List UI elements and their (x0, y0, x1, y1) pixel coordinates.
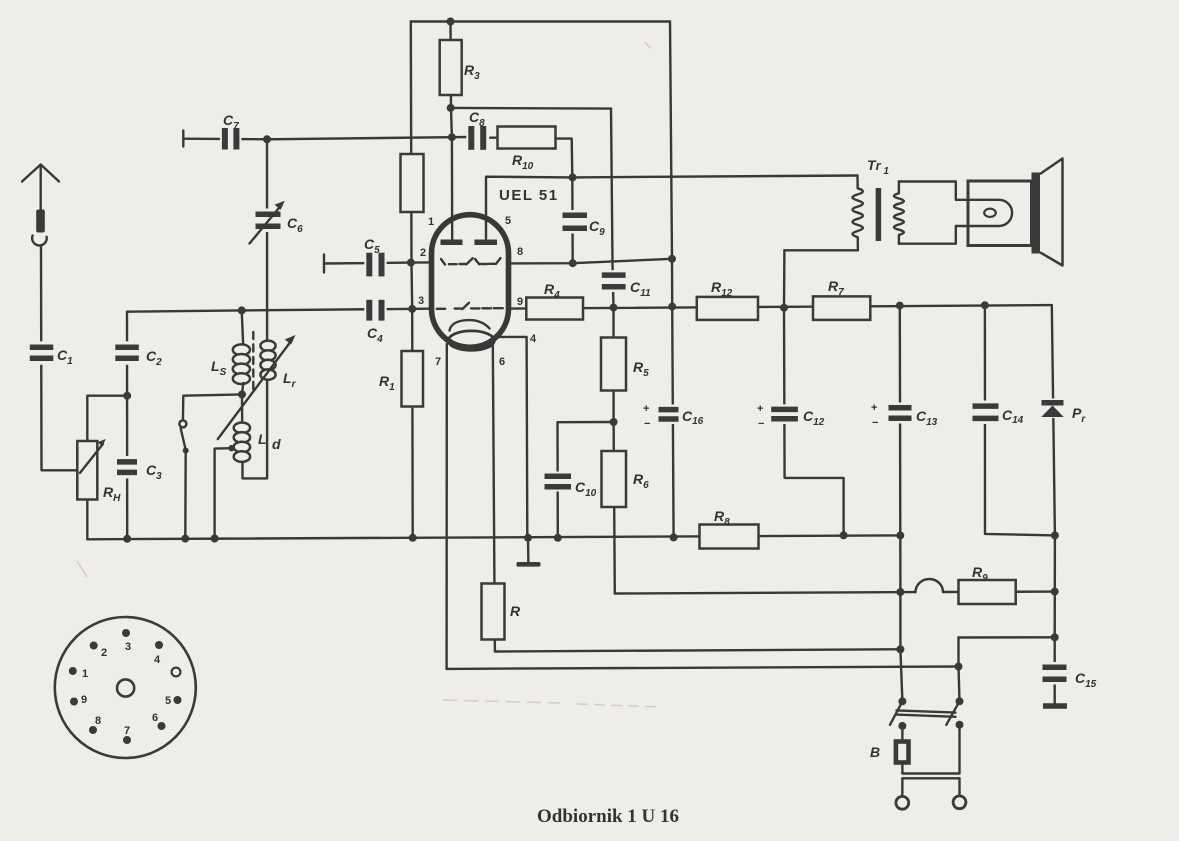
node pin8 rail / right column junction (668, 255, 676, 263)
node filament line 2 / switch column junction (955, 663, 963, 671)
node grid rail / R1 junction (408, 305, 416, 313)
battery B (870, 742, 909, 763)
resistor R1 (379, 351, 423, 407)
node bottom rail / C16 junction (670, 533, 678, 541)
node bottom rail / C10 junction (554, 534, 562, 542)
node R5 / R6 / C10 junction (610, 418, 618, 426)
transformer Tr1 core (876, 188, 882, 241)
wire R5 R6 column (614, 308, 615, 594)
capacitor C8 (466, 109, 489, 152)
capacitor C15 (1041, 662, 1097, 690)
node bottom rail / C13 column junction (896, 531, 904, 539)
node anode rail / C13 junction (896, 302, 904, 310)
capacitor C9 (561, 210, 606, 238)
wire ground stub (527, 538, 530, 563)
svg-text:5: 5 (165, 695, 171, 707)
wire switch to bottom rail (184, 451, 187, 539)
diode Pr rectifier (1040, 399, 1087, 426)
inductor Ls (211, 344, 250, 384)
capacitor C1 (28, 341, 73, 367)
svg-text:8: 8 (517, 246, 523, 258)
node bottom rail / Ld tap junction (211, 535, 219, 543)
wire C16 column (672, 259, 674, 538)
svg-text:7: 7 (435, 356, 441, 368)
wire x958 column (959, 638, 960, 702)
inductor Ld (234, 423, 281, 462)
node R9 line / C13 column junction (896, 588, 904, 596)
wire RH bottom lead (86, 500, 88, 540)
wire C2 column (126, 312, 129, 539)
capacitor C4 (364, 298, 386, 345)
switch S1 band (179, 420, 188, 453)
inductor Lr (260, 341, 296, 390)
svg-text:−: − (644, 418, 650, 430)
svg-text:−: − (758, 418, 764, 430)
tube filament arc (450, 320, 490, 330)
speaker cone (1040, 159, 1063, 266)
op-amp U1 tube UEL51 envelope (432, 215, 509, 348)
resistor R3 (440, 40, 480, 95)
wire C10 branch (558, 422, 614, 538)
wire antenna to C1 to RH wiper (41, 247, 80, 471)
wire antenna lead (40, 166, 42, 211)
node screen line / R10 junction (569, 173, 577, 181)
antenna (22, 165, 59, 246)
ground (517, 562, 541, 567)
svg-text:C2: C2 (146, 348, 162, 368)
node C7 left terminus (182, 131, 184, 147)
svg-text:1: 1 (82, 668, 88, 680)
speaker magnet housing (968, 181, 1032, 246)
svg-text:d: d (272, 436, 281, 452)
tube pin number labels (418, 215, 537, 368)
svg-text:+: + (643, 403, 649, 415)
svg-text:3: 3 (125, 641, 131, 653)
svg-text:9: 9 (517, 296, 523, 308)
node top rail / R3 junction (447, 18, 455, 26)
svg-text:R: R (510, 603, 521, 619)
node bottom rail / pin4 ground junction (524, 534, 532, 542)
svg-text:C6: C6 (287, 215, 303, 235)
svg-text:C15: C15 (1075, 670, 1097, 690)
wire R9 line right (943, 590, 1055, 593)
node pin2 rail / left column junction (407, 259, 415, 267)
wire R3 bottom to C11 column link (451, 107, 612, 110)
node C5 left terminus (323, 255, 325, 273)
svg-text:C11: C11 (630, 279, 651, 299)
wire C13 column (900, 306, 903, 702)
capacitor C3 (115, 456, 162, 482)
capacitor C11 (600, 270, 651, 299)
wire Ld top lead (241, 394, 244, 423)
wire C12 column (784, 250, 844, 535)
node R3 / C7 rail junction (448, 133, 456, 141)
capacitor C16 electrolytic (643, 403, 704, 430)
wire R9 line left (615, 592, 916, 593)
node anode rail / R5-C11 junction (610, 304, 618, 312)
node C2 column / RH junction (123, 392, 131, 400)
svg-text:LS: LS (211, 358, 227, 378)
wire top rail (411, 20, 670, 22)
svg-text:+: + (757, 403, 763, 415)
node filament line 1 / switch column junction (896, 645, 904, 653)
speaker gap bar (1032, 173, 1041, 254)
svg-text:2: 2 (420, 247, 426, 259)
wire plug leads (901, 778, 904, 796)
node C15 end bar (1043, 703, 1067, 709)
resistor R2 unlabeled (401, 154, 424, 212)
svg-text:R3: R3 (464, 62, 480, 82)
speaker voice coil (968, 200, 1012, 226)
node bottom rail / R1 junction (409, 534, 417, 542)
tube grid dashed pin2-pin8 (441, 258, 501, 265)
capacitor C14 (971, 401, 1024, 427)
wire C8 to R10 (486, 136, 497, 138)
wire C6 column (266, 139, 269, 341)
wire pin6 lead through R (493, 343, 495, 652)
resistor R6 (602, 451, 650, 507)
svg-text:C9: C9 (589, 218, 605, 238)
svg-text:C12: C12 (803, 408, 825, 428)
transformer Tr1 primary (852, 157, 889, 250)
wire ferrite core dashed (252, 332, 254, 391)
wire y637 link (959, 636, 1055, 639)
resistor R9 (959, 564, 1016, 604)
node bottom rail / band switch junction (181, 535, 189, 543)
svg-text:R10: R10 (512, 152, 534, 172)
svg-text:+: + (871, 402, 877, 414)
resistor R10 (498, 127, 556, 173)
svg-text:4: 4 (154, 654, 161, 666)
resistor R8 (700, 508, 759, 549)
potentiometer RH (77, 439, 121, 504)
wire C11 column (611, 109, 614, 308)
svg-text:RH: RH (103, 484, 121, 504)
wire secondary top to speaker (899, 182, 968, 200)
svg-text:Lr: Lr (283, 370, 297, 390)
svg-text:2: 2 (101, 647, 107, 659)
capacitor C12 electrolytic (757, 403, 825, 430)
svg-text:B: B (870, 744, 880, 760)
resistor R4 (526, 281, 583, 320)
svg-text:4: 4 (530, 333, 537, 345)
capacitor C5 (364, 236, 387, 278)
wire pin4 lead (495, 337, 528, 538)
svg-text:R1: R1 (379, 373, 395, 393)
wire bottom rail (87, 535, 900, 539)
svg-text:5: 5 (505, 215, 511, 227)
wire plug lead right (958, 778, 960, 796)
resistor R power (482, 584, 522, 640)
svg-text:1: 1 (428, 216, 434, 228)
svg-text:C1: C1 (57, 347, 73, 367)
svg-text:C16: C16 (682, 408, 704, 427)
svg-text:C14: C14 (1002, 407, 1024, 426)
wire battery to cord (901, 763, 903, 774)
wire switch left to battery (901, 726, 903, 742)
resistor R5 (601, 338, 649, 391)
svg-text:L: L (258, 431, 267, 447)
svg-text:8: 8 (95, 715, 101, 727)
wire Ls bottom lead (242, 383, 243, 394)
node pin8 rail / C9 junction (569, 259, 577, 267)
node junction C7-C6 (263, 135, 271, 143)
svg-text:UEL 51: UEL 51 (499, 187, 559, 204)
node Ls / Ld / switch junction (238, 390, 246, 398)
svg-text:Odbiornik 1 U 16: Odbiornik 1 U 16 (537, 806, 679, 827)
svg-text:6: 6 (499, 356, 505, 368)
wire C14 column (985, 305, 1055, 535)
node anode rail / C12 junction (780, 304, 788, 312)
tube anode pin5 electrode (474, 240, 497, 246)
wire Lr tuning arrow (218, 335, 296, 439)
wire C7 rail (183, 137, 468, 139)
capacitor C13 electrolytic (871, 402, 938, 429)
svg-text:−: − (872, 417, 878, 429)
capacitor C2 (113, 341, 162, 368)
wire cord double line (902, 774, 959, 779)
svg-text:7: 7 (124, 725, 130, 737)
svg-text:3: 3 (418, 295, 424, 307)
wire switch right to cord (958, 725, 960, 774)
wire Pr C15 column (1052, 305, 1055, 703)
svg-text:R5: R5 (633, 359, 649, 379)
switch S2 power double pole (890, 697, 964, 730)
wire grid rail y310 (127, 309, 430, 312)
wire screen line y177 pin5 to Tr1 (486, 176, 858, 239)
svg-text:6: 6 (152, 712, 158, 724)
wire R3 column (451, 22, 453, 241)
wire pin8 rail (511, 259, 673, 264)
wire secondary bottom to speaker (899, 226, 968, 244)
wire band switch feed (183, 394, 242, 420)
wire faint pencil marks (77, 42, 660, 707)
resistor R7 (813, 278, 870, 320)
node bottom rail / C2 junction (123, 535, 131, 543)
wire filament line 1 (495, 649, 901, 651)
resistor R12 (697, 279, 758, 320)
wire RH top lead (87, 396, 127, 441)
node plug right (953, 796, 966, 809)
transformer Tr1 secondary (894, 182, 904, 244)
capacitor C7 (220, 112, 242, 152)
tube anode pin1 electrode (441, 240, 463, 246)
svg-text:C4: C4 (367, 325, 383, 345)
svg-text:Pr: Pr (1072, 405, 1086, 425)
svg-text:Tr 1: Tr 1 (867, 157, 889, 177)
svg-text:C10: C10 (575, 479, 597, 499)
node plug left (896, 796, 909, 809)
svg-text:R7: R7 (828, 278, 844, 298)
svg-text:R6: R6 (633, 471, 649, 491)
capacitor C10 (543, 472, 597, 500)
node Ld tap dot (228, 445, 234, 451)
node anode rail / C14 junction (981, 301, 989, 309)
node C14 / Pr column junction (1051, 531, 1059, 539)
node bottom rail / C12 junction (840, 531, 848, 539)
wire pin7 lead (445, 344, 448, 669)
node R9 / Pr column junction (1051, 588, 1059, 596)
node grid rail / Ls junction (238, 306, 246, 314)
wire filament line 2 (447, 667, 959, 669)
capacitor C6 variable (250, 201, 304, 244)
node C15 link / Pr column junction (1051, 633, 1059, 641)
wire R10 right to C9 column (556, 139, 573, 264)
node R3 bottom / C11 link junction (447, 104, 455, 112)
svg-text:C3: C3 (146, 462, 162, 482)
wire left column x412 (top rail to bottom rail) (411, 22, 413, 538)
tube socket view (55, 617, 196, 758)
wire right column x670 top rail to pin8 rail (670, 22, 672, 259)
wire anode rail y307 R4 to Pr corner (511, 305, 1052, 309)
wire Tr1 primary bottom to C12 (784, 249, 858, 251)
wire hop bump on R9 line (915, 579, 943, 592)
tube grid dashed pin3-pin9 (437, 303, 503, 309)
node anode rail / C16 junction (668, 303, 676, 311)
wire Ls top lead (242, 310, 244, 345)
wire pin2 rail left (324, 262, 430, 263)
svg-text:9: 9 (81, 694, 87, 706)
wire Ld tap (215, 448, 231, 538)
svg-text:C13: C13 (916, 408, 938, 428)
